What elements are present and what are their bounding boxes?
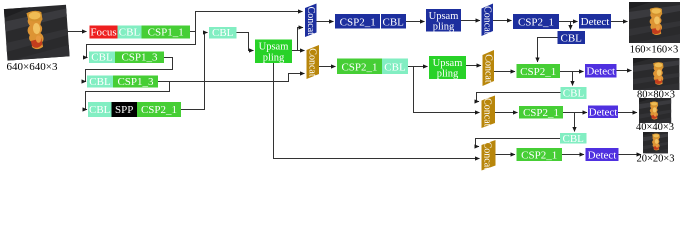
svg-text:CSP2_1: CSP2_1: [341, 62, 377, 74]
svg-text:CSP2_1: CSP2_1: [141, 104, 177, 116]
svg-text:Concat: Concat: [481, 98, 492, 127]
svg-text:CBL: CBL: [562, 133, 584, 145]
svg-text:CSP1_3: CSP1_3: [117, 76, 154, 88]
svg-text:20×20×3: 20×20×3: [636, 154, 674, 165]
svg-text:Concat: Concat: [306, 48, 317, 77]
svg-text:640×640×3: 640×640×3: [7, 61, 58, 73]
svg-text:CSP2_1: CSP2_1: [523, 107, 559, 119]
svg-text:160×160×3: 160×160×3: [630, 45, 679, 56]
svg-text:CBL: CBL: [119, 27, 141, 39]
svg-text:Concat: Concat: [481, 142, 492, 171]
svg-text:Focus: Focus: [90, 27, 116, 39]
svg-text:CSP1_3: CSP1_3: [121, 52, 158, 64]
svg-text:CBL: CBL: [384, 62, 406, 74]
svg-text:pling: pling: [437, 69, 459, 80]
svg-text:Concat: Concat: [482, 54, 493, 83]
svg-text:SPP: SPP: [115, 104, 133, 116]
svg-text:CSP2_1: CSP2_1: [518, 17, 554, 29]
svg-text:Detect: Detect: [586, 66, 615, 78]
svg-text:CBL: CBL: [382, 16, 404, 28]
svg-text:CSP1_1: CSP1_1: [148, 27, 184, 39]
svg-text:Detect: Detect: [588, 150, 617, 162]
svg-text:Upsam: Upsam: [429, 11, 459, 22]
svg-text:Concat: Concat: [481, 6, 492, 35]
svg-text:CBL: CBL: [89, 76, 111, 88]
svg-text:40×40×3: 40×40×3: [636, 122, 674, 133]
svg-text:CBL: CBL: [563, 88, 585, 100]
svg-text:Upsam: Upsam: [433, 58, 463, 69]
svg-text:CSP2_1: CSP2_1: [340, 16, 376, 28]
svg-text:Concat: Concat: [305, 7, 316, 36]
svg-text:CBL: CBL: [560, 33, 582, 45]
svg-text:CBL: CBL: [212, 27, 234, 39]
svg-text:Detect: Detect: [581, 16, 610, 28]
svg-text:CBL: CBL: [91, 52, 113, 64]
svg-text:pling: pling: [263, 53, 285, 64]
svg-text:CSP2_1: CSP2_1: [520, 66, 556, 78]
svg-text:pling: pling: [433, 22, 455, 33]
svg-text:Detect: Detect: [589, 107, 618, 119]
svg-text:CBL: CBL: [89, 104, 111, 116]
svg-text:Upsam: Upsam: [259, 42, 289, 53]
svg-text:CSP2_1: CSP2_1: [521, 150, 557, 162]
